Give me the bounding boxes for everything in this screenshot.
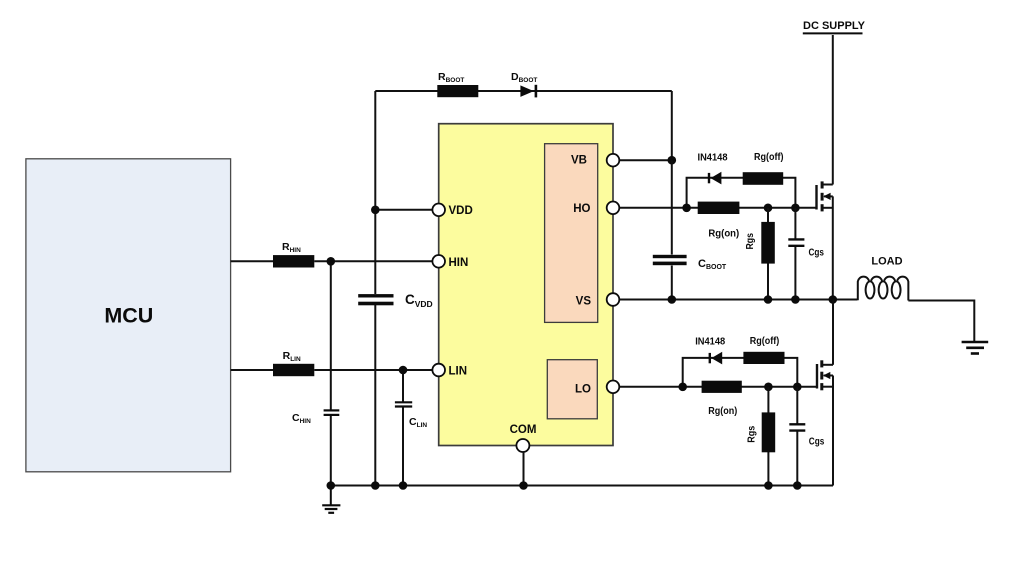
svg-text:VS: VS xyxy=(576,296,592,308)
resistor Rg(on) low side xyxy=(702,381,742,393)
wire LIN from R_LIN to LIN pin xyxy=(314,369,438,371)
node junction R_HIN/C_HIN xyxy=(327,257,336,266)
node junction Cgs2/bus xyxy=(793,481,802,490)
resistor Rg(off) high side xyxy=(743,172,784,185)
svg-text:IN4148: IN4148 xyxy=(695,336,725,347)
node junction stub/HO xyxy=(682,204,691,213)
wire LIN from MCU to R_LIN xyxy=(231,369,273,371)
node junction VB/bootstrap xyxy=(668,156,677,165)
node junction MOSFET source / VS xyxy=(829,295,838,304)
wire C_BOOT branch vertical xyxy=(671,160,673,254)
wire COM to bus xyxy=(523,452,525,486)
pin circle LO xyxy=(607,381,620,394)
pin circle COM xyxy=(516,439,529,452)
svg-text:HIN: HIN xyxy=(449,257,469,269)
MCU block xyxy=(26,159,231,472)
wire HIN from MCU to R_HIN xyxy=(231,260,273,262)
svg-text:DC SUPPLY: DC SUPPLY xyxy=(803,20,866,32)
resistor R_BOOT xyxy=(437,85,478,97)
capacitor Cgs high side xyxy=(794,208,796,239)
resistor R_LIN xyxy=(273,364,314,376)
wire HIN from R_HIN to HIN pin xyxy=(314,260,438,262)
node junction C_LIN/bus xyxy=(399,481,408,490)
node junction Cgs/HO xyxy=(791,204,800,213)
wire VB pin to bootstrap node xyxy=(613,159,672,161)
svg-text:VDD: VDD xyxy=(449,205,473,217)
wire C_HIN branch vertical xyxy=(330,261,332,410)
svg-text:VB: VB xyxy=(571,155,587,167)
svg-text:COM: COM xyxy=(510,424,537,436)
pin circle HIN xyxy=(432,255,445,268)
wire gate branch stub low side xyxy=(683,358,798,387)
resistor R_HIN xyxy=(273,255,314,267)
node junction C_BOOT/VS xyxy=(668,295,677,304)
pin circle VS xyxy=(607,293,620,306)
transistor Q2 low-side MOSFET xyxy=(817,300,833,486)
ground right xyxy=(962,342,989,354)
pin circle VB xyxy=(607,154,620,167)
wire C_LIN branch vertical xyxy=(402,370,404,402)
node junction COM/bus xyxy=(519,481,528,490)
resistor Rg(on) high side xyxy=(698,202,740,214)
node junction Rgs2/bus xyxy=(764,481,773,490)
node junction VDD rail/bus xyxy=(371,481,380,490)
inductor LOAD xyxy=(858,256,909,301)
pin circle LIN xyxy=(432,364,445,377)
wire VDD to pin xyxy=(375,209,438,211)
svg-text:Rg(off): Rg(off) xyxy=(750,336,780,347)
node junction VDD rail xyxy=(371,206,380,215)
capacitor Cgs low side xyxy=(796,387,798,424)
wire HO line xyxy=(613,207,817,209)
node junction C_HIN/bus xyxy=(327,481,336,490)
node junction Rgs/LO xyxy=(764,383,773,392)
capacitor C_LIN xyxy=(395,401,412,403)
wire ground bus xyxy=(331,485,833,487)
svg-text:Rgs: Rgs xyxy=(747,425,758,442)
pin circle VDD xyxy=(432,204,445,217)
capacitor C_HIN xyxy=(324,409,340,411)
svg-text:MCU: MCU xyxy=(104,304,153,328)
node junction Cgs/LO xyxy=(793,383,802,392)
diode IN4148 high side xyxy=(708,173,710,183)
node junction Rgs/HO xyxy=(764,204,773,213)
svg-text:Rg(off): Rg(off) xyxy=(754,152,784,163)
wire VS line xyxy=(613,299,857,301)
svg-text:LIN: LIN xyxy=(449,366,468,378)
diode IN4148 low side xyxy=(709,353,711,363)
svg-text:Cgs: Cgs xyxy=(809,248,825,259)
capacitor C_VDD xyxy=(358,294,393,297)
resistor Rgs low side xyxy=(767,387,769,486)
wire VDD rail vertical left xyxy=(374,91,376,294)
node junction R_LIN/C_LIN xyxy=(399,366,408,375)
resistor Rgs high side xyxy=(767,208,769,300)
driver IC body U1 xyxy=(439,124,613,446)
node junction Cgs/VS xyxy=(791,295,800,304)
diode D_BOOT xyxy=(520,85,533,97)
svg-text:LOAD: LOAD xyxy=(871,256,902,268)
wire bootstrap right vertical to VB xyxy=(671,91,673,160)
svg-text:Rgs: Rgs xyxy=(745,233,756,250)
wire gate branch stub high side xyxy=(687,178,796,208)
low-side block (LO) xyxy=(547,360,597,419)
wire LO line xyxy=(612,386,817,388)
svg-text:IN4148: IN4148 xyxy=(698,152,728,163)
svg-text:Rg(on): Rg(on) xyxy=(708,406,737,417)
node junction stub/LO xyxy=(678,383,687,392)
wire bootstrap top horizontal xyxy=(375,90,672,92)
svg-text:Rg(on): Rg(on) xyxy=(708,228,739,239)
svg-text:LO: LO xyxy=(575,384,591,396)
wire LOAD to ground xyxy=(908,301,974,342)
high-side block (VB/HO/VS) xyxy=(545,144,598,323)
transistor Q1 high-side MOSFET xyxy=(817,35,833,300)
svg-text:HO: HO xyxy=(573,203,590,215)
svg-text:Cgs: Cgs xyxy=(809,437,825,448)
capacitor C_BOOT xyxy=(653,255,687,258)
ground left xyxy=(322,486,340,513)
resistor Rg(off) low side xyxy=(743,352,784,364)
pin circle HO xyxy=(607,202,620,215)
node junction Rgs/VS xyxy=(764,295,773,304)
